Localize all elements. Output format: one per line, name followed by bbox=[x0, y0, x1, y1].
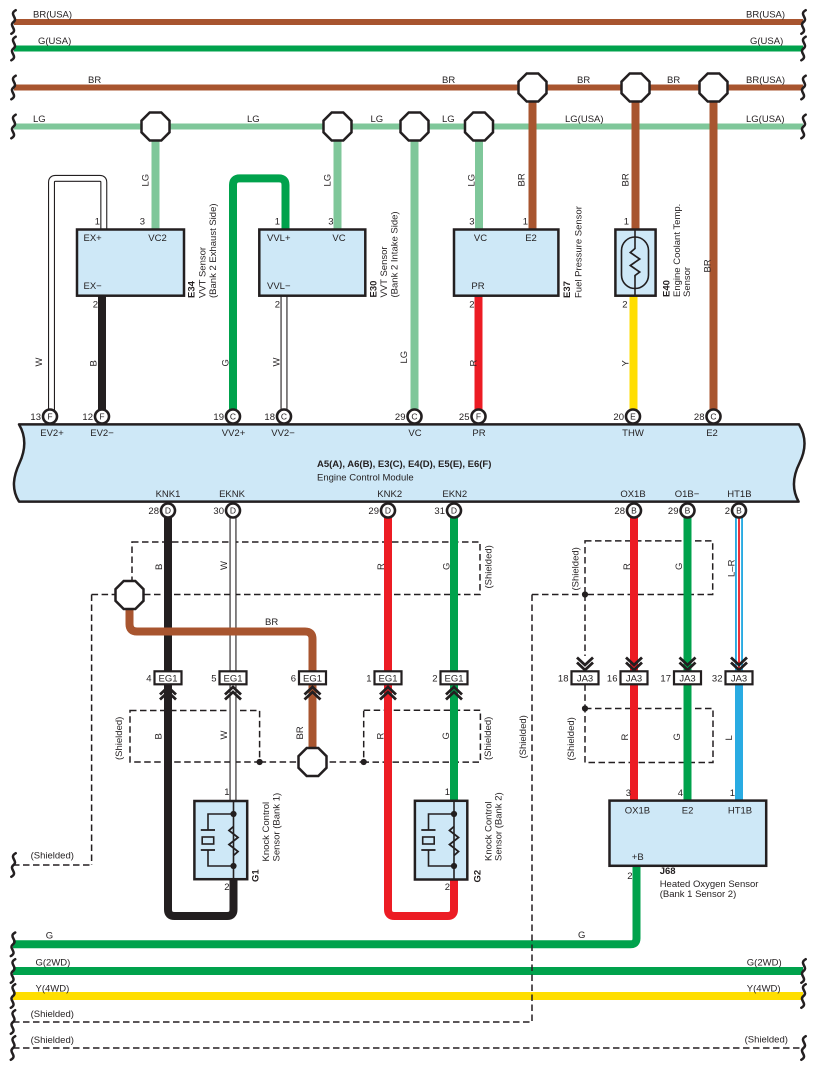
svg-text:BR(USA): BR(USA) bbox=[746, 10, 785, 21]
wire BR from octagon to E37 pin 1 E2 bbox=[529, 88, 537, 231]
svg-text:BR(USA): BR(USA) bbox=[746, 75, 785, 86]
sensor E30 VVT Sensor (Bank 2 Intake Side) bbox=[259, 230, 365, 296]
svg-text:1: 1 bbox=[730, 788, 735, 799]
svg-text:E40: E40 bbox=[662, 280, 673, 297]
svg-text:VVL+: VVL+ bbox=[267, 233, 291, 244]
connector JA3 pin 18 bbox=[558, 658, 599, 685]
wire BR bus bbox=[14, 85, 803, 91]
ECM pin 28 C E2 bbox=[694, 410, 721, 424]
svg-text:1: 1 bbox=[224, 787, 229, 798]
svg-text:JA3: JA3 bbox=[679, 674, 695, 685]
svg-text:2: 2 bbox=[469, 300, 474, 311]
node octagon on BR bus above E37 E2 bbox=[519, 74, 547, 102]
shield box around OX1B/O1B- wires (upper) bbox=[585, 541, 713, 595]
svg-text:28: 28 bbox=[694, 412, 705, 423]
svg-text:R: R bbox=[375, 733, 386, 740]
svg-text:2: 2 bbox=[432, 674, 437, 685]
svg-text:G(2WD): G(2WD) bbox=[36, 957, 71, 968]
svg-text:EV2−: EV2− bbox=[90, 428, 114, 439]
svg-text:G: G bbox=[441, 732, 452, 739]
ECM pin 20 E THW bbox=[613, 410, 640, 424]
shield drain dashed segment left of octagon bbox=[92, 594, 132, 596]
svg-text:13: 13 bbox=[30, 412, 41, 423]
svg-text:20: 20 bbox=[613, 412, 624, 423]
wire W loop from ECM pin 13 EV2+ to E34 pin 1 bbox=[52, 178, 104, 416]
svg-text:Y(4WD): Y(4WD) bbox=[36, 984, 70, 995]
svg-text:PR: PR bbox=[471, 281, 484, 292]
svg-text:28: 28 bbox=[614, 506, 625, 517]
svg-text:LG: LG bbox=[399, 351, 410, 364]
svg-text:Y: Y bbox=[621, 360, 632, 367]
svg-text:16: 16 bbox=[607, 674, 618, 685]
svg-text:W: W bbox=[219, 731, 230, 740]
connector EG1 pin 4 bbox=[146, 671, 181, 699]
ECM pin 25 F PR bbox=[459, 410, 486, 424]
sensor J68 Heated Oxygen Sensor (Bank 1 Sensor 2) bbox=[610, 801, 767, 866]
svg-text:3: 3 bbox=[140, 217, 145, 228]
svg-text:VVT Sensor: VVT Sensor bbox=[379, 246, 390, 297]
svg-text:BR: BR bbox=[517, 173, 528, 186]
svg-text:JA3: JA3 bbox=[577, 674, 593, 685]
svg-text:1: 1 bbox=[523, 217, 528, 228]
shield box around B/W knock sensor 1 wires (lower) bbox=[130, 711, 260, 763]
shield junction dot left of knock octagon bbox=[257, 759, 263, 765]
wire LG from octagon to ECM pin 29 VC bbox=[411, 127, 419, 417]
svg-text:B: B bbox=[736, 506, 742, 516]
svg-text:1: 1 bbox=[95, 217, 100, 228]
right edge break squiggles bbox=[801, 10, 805, 34]
svg-text:VC: VC bbox=[332, 233, 345, 244]
svg-text:F: F bbox=[99, 412, 104, 422]
connector JA3 pin 32 bbox=[712, 658, 753, 685]
svg-text:LG: LG bbox=[442, 114, 455, 125]
svg-text:A5(A), A6(B), E3(C), E4(D), E5: A5(A), A6(B), E3(C), E4(D), E5(E), E6(F) bbox=[317, 459, 491, 470]
wire G(2WD) bus bbox=[13, 967, 803, 975]
svg-text:G: G bbox=[578, 930, 585, 941]
shield dashed segment to long drain bbox=[532, 594, 585, 596]
svg-text:12: 12 bbox=[82, 412, 93, 423]
svg-text:VV2+: VV2+ bbox=[222, 428, 246, 439]
svg-text:1: 1 bbox=[366, 674, 371, 685]
svg-text:D: D bbox=[230, 506, 236, 516]
svg-text:29: 29 bbox=[395, 412, 406, 423]
wire W from ECM pin 30 EKNK to G1 pin 1 bbox=[230, 511, 237, 803]
wire L-R from ECM pin 2 HT1B to JA3 pin 32 bbox=[735, 511, 743, 673]
wire LG from octagon to E37 pin 3 VC bbox=[475, 127, 483, 231]
svg-text:2: 2 bbox=[224, 882, 229, 893]
shield box around R/G knock sensor 2 wires (lower) bbox=[364, 710, 481, 762]
node octagon on shield at BR drain upper bbox=[116, 581, 144, 609]
svg-text:BR: BR bbox=[703, 259, 714, 272]
svg-text:EG1: EG1 bbox=[303, 674, 322, 685]
svg-text:EKNK: EKNK bbox=[219, 489, 246, 500]
svg-text:EX+: EX+ bbox=[84, 233, 103, 244]
svg-text:(Shielded): (Shielded) bbox=[31, 851, 74, 862]
svg-text:OX1B: OX1B bbox=[620, 489, 645, 500]
svg-text:D: D bbox=[165, 506, 171, 516]
wire B from E34 pin 2 EX- to ECM pin 12 EV2- bbox=[98, 294, 106, 417]
sensor E37 Fuel Pressure Sensor bbox=[454, 230, 558, 296]
wire G(USA) bus bbox=[14, 46, 803, 52]
svg-text:C: C bbox=[281, 412, 287, 422]
wire BR from octagon to ECM pin 28 E2 bbox=[710, 88, 718, 417]
svg-text:B: B bbox=[154, 564, 165, 570]
ECM Engine Control Module body bbox=[14, 424, 805, 501]
svg-text:31: 31 bbox=[434, 506, 445, 517]
svg-text:1: 1 bbox=[275, 217, 280, 228]
svg-text:B: B bbox=[685, 506, 691, 516]
svg-text:6: 6 bbox=[291, 674, 296, 685]
connector EG1 pin 1 bbox=[366, 671, 401, 699]
svg-text:BR: BR bbox=[577, 75, 590, 86]
svg-text:E30: E30 bbox=[369, 281, 380, 298]
svg-text:Knock Control: Knock Control bbox=[261, 802, 272, 862]
svg-text:KNK2: KNK2 bbox=[377, 489, 402, 500]
svg-text:OX1B: OX1B bbox=[625, 806, 650, 817]
ECM pin 31 D EKN2 bbox=[434, 504, 461, 518]
connector JA3 pin 17 bbox=[660, 658, 701, 685]
svg-text:LG: LG bbox=[247, 114, 260, 125]
svg-text:BR(USA): BR(USA) bbox=[33, 10, 72, 21]
svg-text:G: G bbox=[220, 359, 231, 366]
svg-text:D: D bbox=[385, 506, 391, 516]
svg-text:G1: G1 bbox=[251, 869, 262, 882]
svg-text:(Shielded): (Shielded) bbox=[483, 717, 494, 760]
wire LG from octagon to E34 pin 3 VC2 bbox=[152, 127, 160, 231]
svg-text:G: G bbox=[442, 563, 453, 570]
svg-text:G: G bbox=[674, 563, 685, 570]
svg-text:+B: +B bbox=[632, 852, 644, 863]
svg-text:29: 29 bbox=[368, 506, 379, 517]
svg-text:G2: G2 bbox=[473, 870, 484, 883]
wire BR from octagon to E40 pin 1 bbox=[632, 88, 640, 231]
svg-text:B: B bbox=[154, 733, 165, 739]
shield (Shielded) bottom bus bbox=[13, 1047, 803, 1049]
svg-text:(Bank 2 Intake Side): (Bank 2 Intake Side) bbox=[390, 211, 401, 297]
svg-text:VC: VC bbox=[408, 428, 421, 439]
svg-text:F: F bbox=[47, 412, 52, 422]
svg-text:BR: BR bbox=[265, 617, 278, 628]
svg-text:VVL−: VVL− bbox=[267, 281, 291, 292]
svg-text:(Shielded): (Shielded) bbox=[570, 547, 581, 590]
svg-text:LG: LG bbox=[323, 174, 334, 187]
ECM pin 29 D KNK2 bbox=[368, 504, 395, 518]
svg-text:F: F bbox=[476, 412, 481, 422]
svg-text:(Bank 1 Sensor 2): (Bank 1 Sensor 2) bbox=[660, 889, 737, 900]
svg-text:(Shielded): (Shielded) bbox=[745, 1035, 788, 1046]
svg-text:W: W bbox=[219, 561, 230, 570]
wire LG bus bbox=[14, 124, 803, 130]
svg-text:G: G bbox=[46, 931, 53, 942]
svg-text:4: 4 bbox=[146, 674, 151, 685]
shield junction dot at box above J68 bbox=[582, 705, 588, 711]
svg-text:Engine Control Module: Engine Control Module bbox=[317, 473, 414, 484]
svg-text:R: R bbox=[376, 563, 387, 570]
svg-text:(Shielded): (Shielded) bbox=[483, 545, 494, 588]
svg-text:C: C bbox=[411, 412, 417, 422]
node octagon on LG bus above E30 VC bbox=[324, 113, 352, 141]
svg-text:Y(4WD): Y(4WD) bbox=[747, 984, 781, 995]
svg-text:EG1: EG1 bbox=[444, 674, 463, 685]
svg-text:HT1B: HT1B bbox=[728, 806, 752, 817]
svg-text:25: 25 bbox=[459, 412, 470, 423]
ECM pin 12 F EV2- bbox=[82, 410, 109, 424]
shield dashed segment between box and octagon bbox=[260, 761, 364, 763]
svg-text:18: 18 bbox=[558, 674, 569, 685]
svg-text:KNK1: KNK1 bbox=[156, 489, 181, 500]
svg-text:E2: E2 bbox=[525, 233, 537, 244]
svg-text:17: 17 bbox=[660, 674, 671, 685]
svg-text:R: R bbox=[622, 563, 633, 570]
svg-text:(Shielded): (Shielded) bbox=[114, 717, 125, 760]
svg-text:LG: LG bbox=[371, 114, 384, 125]
connector EG1 pin 2 bbox=[432, 671, 467, 699]
ECM pin 13 F EV2+ bbox=[30, 410, 57, 424]
connector EG1 pin 6 bbox=[291, 671, 326, 699]
shield drain horizontal to left edge (Shielded) bbox=[13, 864, 92, 866]
svg-text:E: E bbox=[630, 412, 636, 422]
svg-text:30: 30 bbox=[213, 506, 224, 517]
wire BR shield drain from octagon through EG1 pin 6 to lower octagon bbox=[130, 595, 313, 762]
shield drain dashed wire to JA3 pin 18 bbox=[584, 595, 586, 657]
svg-text:B: B bbox=[89, 360, 100, 366]
svg-text:O1B−: O1B− bbox=[675, 489, 700, 500]
node octagon on shield at BR drain lower bbox=[299, 748, 327, 776]
svg-text:EG1: EG1 bbox=[378, 674, 397, 685]
ECM pin 18 C VV2- bbox=[264, 410, 291, 424]
wire LG from octagon to E30 pin 3 VC bbox=[334, 127, 342, 231]
svg-text:1: 1 bbox=[445, 787, 450, 798]
svg-text:EG1: EG1 bbox=[223, 674, 242, 685]
shield drain (Shielded) bus to left edge bbox=[13, 1021, 532, 1023]
svg-text:EV2+: EV2+ bbox=[40, 428, 64, 439]
ECM pin 30 D EKNK bbox=[213, 504, 240, 518]
svg-text:E34: E34 bbox=[187, 280, 198, 298]
connector JA3 pin 16 bbox=[607, 658, 648, 685]
svg-text:3: 3 bbox=[469, 217, 474, 228]
svg-text:3: 3 bbox=[626, 788, 631, 799]
connector EG1 pin 5 bbox=[211, 671, 246, 699]
wire B from ECM pin 28 KNK1 down and to G1 pin 2 bbox=[168, 511, 234, 917]
svg-text:4: 4 bbox=[678, 788, 683, 799]
svg-text:W: W bbox=[272, 358, 283, 367]
ECM pin 28 B OX1B bbox=[614, 504, 641, 518]
svg-text:LG(USA): LG(USA) bbox=[565, 114, 604, 125]
svg-text:19: 19 bbox=[213, 412, 224, 423]
svg-text:B: B bbox=[631, 506, 637, 516]
ECM pin 19 C VV2+ bbox=[213, 410, 240, 424]
wire BR(USA) top bus bbox=[14, 19, 803, 25]
wire R from ECM pin 28 OX1B to J68 pin 3 bbox=[630, 511, 638, 802]
svg-text:Sensor (Bank 1): Sensor (Bank 1) bbox=[272, 793, 283, 862]
shield long vertical drain line bbox=[531, 595, 533, 1023]
svg-text:(Shielded): (Shielded) bbox=[566, 717, 577, 760]
svg-text:VVT Sensor: VVT Sensor bbox=[198, 247, 209, 298]
svg-text:THW: THW bbox=[622, 428, 644, 439]
sensor G2 Knock Control Sensor (Bank 2) bbox=[415, 801, 467, 880]
svg-text:28: 28 bbox=[148, 506, 159, 517]
svg-text:2: 2 bbox=[627, 871, 632, 882]
sensor G1 Knock Control Sensor (Bank 1) bbox=[194, 801, 247, 879]
wire W from E30 pin 2 VVL- to ECM pin 18 VV2- bbox=[281, 294, 288, 417]
svg-text:D: D bbox=[451, 506, 457, 516]
svg-text:Sensor: Sensor bbox=[682, 267, 693, 297]
svg-text:(Shielded): (Shielded) bbox=[518, 715, 529, 758]
sensor E40 Engine Coolant Temp. Sensor (thermistor) bbox=[615, 230, 655, 296]
svg-text:BR: BR bbox=[88, 75, 101, 86]
svg-text:C: C bbox=[230, 412, 236, 422]
svg-text:E2: E2 bbox=[706, 428, 718, 439]
svg-text:VC2: VC2 bbox=[148, 233, 166, 244]
svg-text:HT1B: HT1B bbox=[727, 489, 751, 500]
svg-text:LG: LG bbox=[141, 174, 152, 187]
svg-text:G(2WD): G(2WD) bbox=[747, 957, 782, 968]
svg-text:C: C bbox=[710, 412, 716, 422]
svg-text:Fuel Pressure Sensor: Fuel Pressure Sensor bbox=[574, 206, 585, 298]
shield junction dot at JA3 shield branch bbox=[582, 591, 588, 597]
svg-text:LG(USA): LG(USA) bbox=[746, 114, 785, 125]
svg-text:3: 3 bbox=[328, 217, 333, 228]
wire G from ECM pin 31 EKN2 to G2 pin 1 bbox=[450, 511, 458, 803]
svg-text:VV2−: VV2− bbox=[271, 428, 295, 439]
svg-text:5: 5 bbox=[211, 674, 216, 685]
wire Y(4WD) bus bbox=[13, 992, 803, 1000]
wire R from ECM pin 29 KNK2 down and to G2 pin 2 bbox=[388, 511, 454, 917]
svg-text:G(USA): G(USA) bbox=[750, 36, 783, 47]
svg-text:Sensor (Bank 2): Sensor (Bank 2) bbox=[494, 792, 505, 861]
sensor E34 VVT Sensor (Bank 2 Exhaust Side) bbox=[77, 230, 184, 296]
svg-text:R: R bbox=[469, 360, 480, 367]
svg-text:W: W bbox=[34, 358, 45, 367]
wire L from JA3 pin 32 to J68 pin 1 HT1B bbox=[735, 672, 743, 802]
svg-text:LG: LG bbox=[467, 174, 478, 187]
svg-text:E37: E37 bbox=[562, 281, 573, 298]
shield drain dashed wire below JA3 pin 18 bbox=[584, 684, 586, 708]
svg-text:18: 18 bbox=[264, 412, 275, 423]
svg-text:2: 2 bbox=[725, 506, 730, 517]
svg-text:29: 29 bbox=[668, 506, 679, 517]
ECM pin 28 D KNK1 bbox=[148, 504, 175, 518]
shield box around KNK1/EKNK/KNK2/EKN2 wires (upper) bbox=[132, 542, 480, 595]
node octagon on LG bus above ECM VC bbox=[401, 113, 429, 141]
svg-text:LG: LG bbox=[33, 114, 46, 125]
wire Y from E40 pin 2 to ECM pin 20 THW bbox=[630, 294, 638, 417]
svg-text:VC: VC bbox=[474, 233, 487, 244]
svg-text:2: 2 bbox=[445, 882, 450, 893]
ECM pin 29 B O1B- bbox=[668, 504, 695, 518]
svg-text:1: 1 bbox=[624, 217, 629, 228]
shield junction dot right of knock octagon bbox=[361, 759, 367, 765]
svg-text:JA3: JA3 bbox=[731, 674, 747, 685]
svg-text:E2: E2 bbox=[682, 806, 694, 817]
svg-text:(Shielded): (Shielded) bbox=[31, 1035, 74, 1046]
svg-text:L–R: L–R bbox=[727, 559, 738, 577]
svg-text:2: 2 bbox=[93, 300, 98, 311]
svg-text:G: G bbox=[672, 733, 683, 740]
svg-text:J68: J68 bbox=[660, 866, 676, 877]
svg-text:JA3: JA3 bbox=[626, 674, 642, 685]
svg-text:EKN2: EKN2 bbox=[442, 489, 467, 500]
svg-text:BR: BR bbox=[621, 173, 632, 186]
svg-text:EG1: EG1 bbox=[158, 674, 177, 685]
svg-text:2: 2 bbox=[275, 300, 280, 311]
svg-text:PR: PR bbox=[472, 428, 485, 439]
wire G loop from ECM pin 19 VV2+ to E30 pin 1 VVL+ bbox=[233, 178, 286, 416]
svg-text:(Bank 2 Exhaust Side): (Bank 2 Exhaust Side) bbox=[208, 203, 219, 298]
ECM pin 29 C VC bbox=[395, 410, 422, 424]
node octagon on LG bus above E37 VC bbox=[465, 113, 493, 141]
svg-text:BR: BR bbox=[442, 75, 455, 86]
wire G from ECM pin 29 O1B- to J68 pin 4 bbox=[684, 511, 692, 802]
node octagon on BR bus above ECM E2 bbox=[700, 74, 728, 102]
ECM pin 2 B HT1B bbox=[725, 504, 746, 518]
svg-text:2: 2 bbox=[622, 300, 627, 311]
wire G bottom bus to J68 +B bbox=[13, 866, 637, 944]
svg-text:R: R bbox=[620, 734, 631, 741]
wire R from E37 pin 2 PR to ECM pin 25 PR bbox=[475, 294, 483, 417]
svg-text:L: L bbox=[724, 735, 735, 740]
svg-text:EX−: EX− bbox=[84, 281, 103, 292]
svg-text:BR: BR bbox=[295, 726, 306, 739]
shield drain vertical dashed line left bbox=[91, 595, 93, 866]
svg-text:(Shielded): (Shielded) bbox=[31, 1009, 74, 1020]
svg-text:BR: BR bbox=[667, 75, 680, 86]
node octagon on LG bus above E34 VC2 bbox=[142, 113, 170, 141]
svg-text:32: 32 bbox=[712, 674, 723, 685]
shield box around OX1B/O1B- wires above J68 bbox=[585, 709, 713, 763]
left edge break squiggles bbox=[11, 10, 15, 34]
svg-text:G(USA): G(USA) bbox=[38, 36, 71, 47]
node octagon on BR bus above E40 bbox=[622, 74, 650, 102]
